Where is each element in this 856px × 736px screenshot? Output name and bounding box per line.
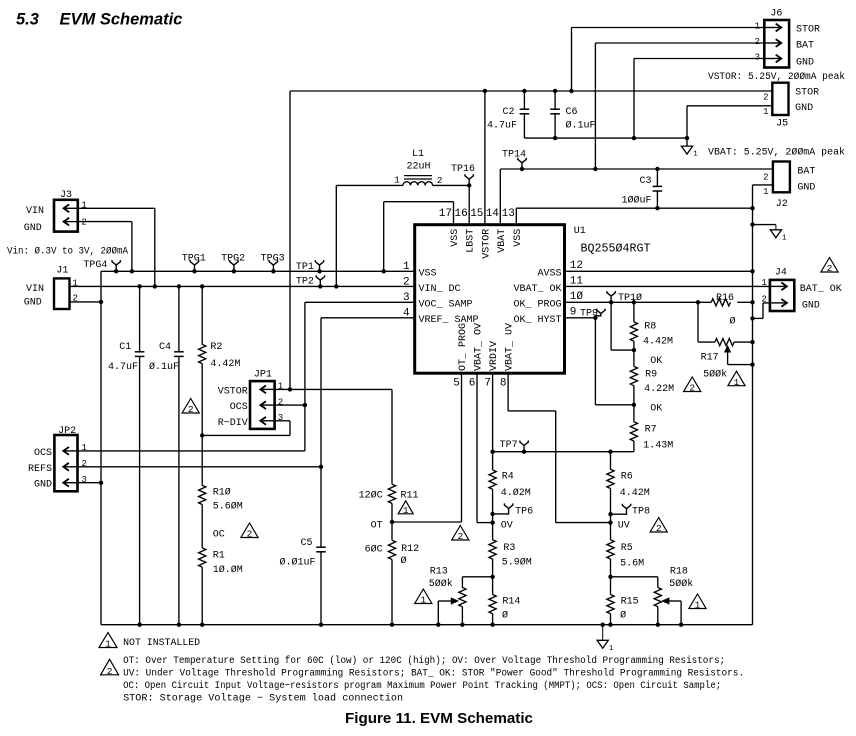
not-installed marker 1 near R17 value [728, 371, 745, 386]
resistor R11 [391, 389, 393, 484]
svg-text:13: 13 [502, 208, 515, 220]
svg-text:BAT_ OK: BAT_ OK [800, 284, 842, 295]
resistor R14 [492, 577, 494, 595]
svg-text:5ØØk: 5ØØk [429, 578, 453, 590]
R17 wiper arrow [725, 346, 731, 352]
svg-text:VOC_ SAMP: VOC_ SAMP [419, 299, 473, 310]
svg-text:GND: GND [24, 223, 42, 234]
svg-text:2: 2 [107, 666, 113, 677]
svg-text:R7: R7 [645, 425, 657, 436]
junction UV node [608, 520, 612, 524]
wire TP10 node down to OK node [610, 302, 612, 350]
wire J3 pin1 to VIN_DC rail [78, 207, 155, 209]
junction J5 gnd [685, 136, 689, 140]
svg-text:BAT: BAT [797, 167, 815, 178]
not-installed marker 1 near R18 [689, 594, 706, 609]
junction bottom rail [679, 623, 683, 627]
svg-text:1: 1 [763, 107, 768, 117]
svg-text:OCS: OCS [230, 402, 248, 413]
svg-text:GND: GND [796, 58, 814, 69]
svg-text:5.6M: 5.6M [620, 559, 644, 570]
junction R17 right [750, 340, 754, 344]
svg-text:OT: OT [371, 521, 383, 532]
svg-text:GND: GND [795, 103, 813, 114]
R18 wiper arrow [668, 600, 682, 602]
svg-text:TP1: TP1 [296, 262, 314, 273]
pin 2 arrow J6 [766, 42, 782, 44]
IC U1 BQ25504RGT body [415, 225, 565, 374]
svg-text:3: 3 [82, 475, 87, 485]
svg-text:R−DIV: R−DIV [218, 418, 248, 429]
svg-text:GND: GND [797, 183, 815, 194]
svg-text:OK: OK [650, 404, 662, 415]
wire J5 pin1 GND [687, 105, 772, 107]
wire AVSS pin12 to right gnd [565, 270, 753, 272]
svg-text:1: 1 [763, 187, 768, 197]
svg-text:R13: R13 [430, 567, 448, 578]
svg-text:5: 5 [453, 378, 460, 390]
test point TP14 [518, 158, 526, 169]
junction R6 top [608, 450, 612, 454]
svg-text:VSS: VSS [450, 229, 461, 247]
wire bottom ground rail [101, 624, 753, 626]
junction right gnd top [750, 206, 754, 210]
svg-text:STOR: STOR [796, 25, 820, 36]
wire right gnd vertical [752, 208, 754, 625]
svg-text:1: 1 [755, 22, 760, 32]
not-installed marker 2 near J4 [821, 258, 838, 273]
svg-text:C2: C2 [502, 107, 514, 118]
svg-text:C6: C6 [566, 107, 578, 118]
svg-text:VBAT_ OV: VBAT_ OV [474, 323, 485, 371]
pin 1 arrow JP1 [260, 388, 273, 390]
wire VIN_DC rail [70, 285, 415, 287]
svg-text:5ØØk: 5ØØk [669, 578, 693, 590]
pin 2 arrow J4 [771, 302, 787, 304]
junction R5 bottom [608, 575, 612, 579]
pin 2 arrow J3 [64, 221, 77, 223]
svg-text:TP1Ø: TP1Ø [618, 292, 642, 304]
junction VRDIV rail [490, 450, 494, 454]
svg-text:BQ255Ø4RGT: BQ255Ø4RGT [581, 243, 651, 256]
svg-text:2: 2 [763, 173, 768, 183]
junction OV node [490, 520, 494, 524]
test point TP6 [493, 503, 513, 514]
svg-text:8: 8 [500, 378, 507, 390]
svg-text:1Ø.ØM: 1Ø.ØM [213, 564, 243, 576]
svg-text:3: 3 [755, 53, 760, 63]
test point TPG4 [112, 260, 120, 271]
wire L1 pin1 down to VIN_DC [335, 185, 337, 286]
resistor R5 [607, 540, 614, 559]
wire OT to U1 pin5 [392, 521, 462, 523]
wire JP1 pin1 to R11 top [275, 388, 392, 390]
svg-text:1: 1 [82, 443, 87, 453]
junction C3 bottom [655, 206, 659, 210]
resistor R16 [711, 299, 730, 306]
svg-text:6ØC: 6ØC [365, 544, 383, 556]
wire JP2 pin2 REFS line [78, 466, 322, 468]
wire JP1 pin2 to VOC_SAMP drop [275, 404, 305, 406]
svg-text:Figure 11. EVM Schematic: Figure 11. EVM Schematic [345, 711, 533, 727]
svg-text:5.6ØM: 5.6ØM [213, 501, 243, 513]
svg-text:TPG4: TPG4 [83, 260, 107, 271]
junction R3 bottom [490, 575, 494, 579]
svg-text:NOT INSTALLED: NOT INSTALLED [123, 638, 200, 649]
junction J4 gnd [750, 316, 754, 320]
wire VBAT_OV pin6 down to OV [476, 373, 478, 522]
svg-text:R6: R6 [621, 472, 633, 483]
svg-text:OK_ PROG: OK_ PROG [513, 299, 561, 310]
svg-text:OK_ HYST: OK_ HYST [513, 315, 561, 326]
svg-text:OV: OV [501, 521, 513, 532]
svg-text:VBAT: VBAT [497, 229, 508, 253]
wire J6 pin1 to VSTOR rail [572, 27, 765, 29]
svg-text:2: 2 [656, 523, 662, 534]
svg-text:STOR: STOR [795, 88, 819, 99]
junction OK node1 [632, 348, 636, 352]
not-installed marker 2 legend [101, 659, 119, 675]
wire VBAT_UV pin8 jog to UV [507, 373, 509, 411]
pin 2 arrow JP1 [260, 404, 273, 406]
junction AVSS [750, 269, 754, 273]
svg-text:BAT: BAT [796, 41, 814, 52]
svg-text:1Ø: 1Ø [570, 291, 584, 303]
junction bottom rail [601, 623, 605, 627]
junction OT node [390, 520, 394, 524]
wire JP2 pin1 OCS line [78, 450, 305, 452]
resistor R15 [610, 577, 612, 595]
svg-text:1: 1 [693, 151, 698, 159]
wire U1 pin17 VSS jog [384, 201, 454, 203]
svg-text:VBAT_ UV: VBAT_ UV [505, 323, 516, 371]
svg-text:4.22M: 4.22M [644, 384, 674, 395]
svg-text:2: 2 [755, 37, 760, 47]
svg-text:J5: J5 [776, 119, 788, 130]
svg-text:5.3: 5.3 [16, 11, 39, 29]
svg-text:9: 9 [570, 307, 577, 319]
svg-text:JP2: JP2 [58, 426, 76, 437]
svg-text:4.Ø2M: 4.Ø2M [501, 487, 531, 499]
junction VSTOR/U1 pin15 [483, 89, 487, 93]
wire R-chain rail TP7 [493, 451, 634, 453]
svg-text:OT: Over Temperature Setting f: OT: Over Temperature Setting for 60C (lo… [123, 655, 725, 667]
svg-text:EVM Schematic: EVM Schematic [60, 11, 183, 29]
svg-text:C1: C1 [119, 342, 131, 353]
not-installed marker 1 near R11 [398, 501, 413, 514]
svg-text:1ØØuF: 1ØØuF [621, 195, 651, 207]
junction J1 pin2 [99, 300, 103, 304]
resistor R8 [633, 302, 635, 322]
svg-text:OC: Open Circuit Input Voltage: OC: Open Circuit Input Voltage−resistors… [123, 680, 721, 692]
ground symbol near J2 [775, 225, 777, 230]
resistor R7 [633, 405, 635, 422]
junction C6 bottom [553, 136, 557, 140]
resistor R6 [610, 452, 612, 470]
svg-text:4.42M: 4.42M [210, 359, 240, 370]
svg-text:VBAT: 5.25V, 2ØØmA peak: VBAT: 5.25V, 2ØØmA peak [708, 147, 845, 159]
capacitor C4 [178, 286, 180, 351]
not-installed marker 2 near JP1 [182, 399, 199, 414]
svg-text:GND: GND [34, 480, 52, 491]
svg-text:R4: R4 [502, 472, 514, 483]
svg-text:R5: R5 [621, 543, 633, 554]
potentiometer R17 [697, 302, 699, 342]
svg-text:REFS: REFS [28, 464, 52, 475]
wire J4 pin2 gnd jog [763, 302, 770, 304]
svg-text:4.7uF: 4.7uF [487, 121, 517, 132]
resistor R3 [489, 540, 496, 559]
junction VSTOR/C6 [553, 89, 557, 93]
junction J6 pin3 gnd [632, 136, 636, 140]
junction bottom rail [319, 623, 323, 627]
svg-text:R14: R14 [502, 596, 520, 607]
svg-text:LBST: LBST [466, 229, 477, 253]
svg-text:1: 1 [403, 505, 409, 516]
svg-text:TP16: TP16 [451, 164, 475, 175]
connector JP2 [54, 435, 77, 491]
test point TP16 [465, 174, 473, 185]
resistor R9 [633, 350, 635, 366]
connector J6 [764, 20, 789, 68]
svg-text:1: 1 [420, 595, 426, 606]
svg-text:Ø.1uF: Ø.1uF [149, 361, 179, 373]
capacitor C5 [320, 467, 322, 547]
svg-text:Ø.Ø1uF: Ø.Ø1uF [279, 557, 315, 569]
junction L1 on VIN_DC [334, 284, 338, 288]
svg-text:15: 15 [470, 208, 483, 220]
svg-text:TPG1: TPG1 [182, 254, 206, 265]
junction bottom rail [137, 623, 141, 627]
svg-text:VREF_ SAMP: VREF_ SAMP [419, 315, 479, 326]
svg-text:J3: J3 [60, 190, 72, 201]
svg-text:TP6: TP6 [515, 507, 533, 518]
svg-text:R16: R16 [716, 293, 734, 304]
junction bottom rail [460, 623, 464, 627]
svg-text:7: 7 [484, 378, 491, 390]
junction gnd stub [750, 222, 754, 226]
svg-text:1: 1 [278, 382, 283, 392]
svg-text:4.7uF: 4.7uF [108, 362, 138, 373]
svg-text:R18: R18 [670, 567, 688, 578]
svg-text:OK: OK [650, 356, 662, 367]
capacitor C1 [139, 286, 141, 351]
svg-text:4.42M: 4.42M [643, 337, 673, 348]
not-installed marker 2 near OT [452, 526, 469, 541]
R13 wiper arrow [438, 600, 452, 602]
wire J6 pin3 to C2/C6 ground rail [634, 58, 764, 60]
svg-text:UV: Under Voltage Threshold Pr: UV: Under Voltage Threshold Programming … [123, 667, 744, 679]
test point TP10 [607, 291, 615, 302]
junction OK_PROG right gnd [750, 300, 754, 304]
connector J1 [54, 278, 70, 309]
wire left gnd vertical [100, 271, 102, 624]
connector J2 [773, 162, 790, 193]
junction REFS / VREF_SAMP / C5 [319, 465, 323, 469]
wire VSS pin13 rail to right gnd [516, 207, 752, 209]
svg-text:4.42M: 4.42M [620, 488, 650, 499]
junction VBAT/C3 [655, 167, 659, 171]
svg-text:VIN_ DC: VIN_ DC [419, 284, 461, 295]
svg-text:1: 1 [394, 175, 400, 186]
svg-text:5.9ØM: 5.9ØM [502, 557, 532, 569]
svg-text:R8: R8 [644, 322, 656, 333]
svg-text:R12: R12 [401, 544, 419, 555]
svg-text:2: 2 [689, 383, 695, 394]
wire J6 pin2 to VBAT rail [595, 42, 764, 44]
wire R18 top link [611, 576, 658, 578]
svg-text:VSTOR: 5.25V, 2ØØmA peak: VSTOR: 5.25V, 2ØØmA peak [708, 71, 845, 83]
pin 3 arrow JP2 [63, 482, 76, 484]
svg-text:C3: C3 [639, 176, 651, 187]
svg-text:J4: J4 [775, 268, 787, 279]
svg-text:GND: GND [24, 298, 42, 309]
svg-text:J1: J1 [56, 266, 68, 277]
wire JP2 pin3 to left gnd [78, 482, 102, 484]
junction J3 pin2 [130, 269, 134, 273]
junction VBAT/J6 pin2 [593, 167, 597, 171]
not-installed marker 2 near R9 [684, 377, 701, 392]
svg-text:2: 2 [81, 218, 86, 228]
wire OK_HYST pin9 [565, 317, 596, 319]
svg-text:R17: R17 [701, 353, 719, 364]
svg-text:VIN: VIN [26, 284, 44, 295]
ground symbol near J5 [686, 138, 688, 146]
junction J3 pin1 [153, 284, 157, 288]
svg-text:2: 2 [188, 404, 194, 415]
junction bottom rail [490, 623, 494, 627]
svg-text:VSTOR: VSTOR [218, 387, 248, 398]
svg-text:2: 2 [763, 93, 768, 103]
svg-text:VIN: VIN [26, 206, 44, 217]
svg-text:STOR: Storage Voltage − System: STOR: Storage Voltage − System load conn… [123, 692, 403, 704]
wire VBAT rail (pin14 to J2) [500, 168, 773, 170]
svg-text:VSS: VSS [513, 229, 524, 247]
junction bottom rail [390, 623, 394, 627]
svg-text:VSS: VSS [419, 268, 437, 279]
svg-text:1.43M: 1.43M [643, 441, 673, 452]
svg-text:J6: J6 [770, 9, 782, 20]
connector JP1 [250, 381, 275, 429]
wire U1 pin3 VOC_SAMP down to OCS line [305, 301, 415, 303]
wire U1 pin15 up to VSTOR [484, 91, 486, 225]
svg-text:22uH: 22uH [407, 162, 431, 173]
svg-text:JP1: JP1 [254, 369, 272, 380]
svg-text:R3: R3 [503, 543, 515, 554]
capacitor C3 [656, 169, 658, 186]
resistor R1 [199, 548, 206, 567]
resistor R4 [492, 452, 494, 470]
junction R-DIV on R2 chain [200, 433, 204, 437]
svg-text:R1Ø: R1Ø [213, 487, 231, 499]
svg-text:VBAT_ OK: VBAT_ OK [513, 284, 561, 295]
junction JP2 pin3 [99, 481, 103, 485]
junction R17 wiper gnd [750, 362, 754, 366]
svg-text:Ø: Ø [620, 610, 626, 622]
svg-text:J2: J2 [776, 199, 788, 210]
svg-text:TP2: TP2 [296, 277, 314, 288]
svg-text:GND: GND [802, 301, 820, 312]
svg-text:UV: UV [618, 521, 630, 532]
wire R13 top link [462, 576, 492, 578]
svg-text:AVSS: AVSS [537, 268, 561, 279]
test point TP8 [611, 504, 631, 515]
test point TP9 [595, 309, 605, 318]
test point TP1 [315, 260, 323, 271]
wire JP1 pin3 jog to R-DIV node [275, 420, 290, 422]
svg-text:5ØØk: 5ØØk [703, 369, 727, 381]
svg-text:1: 1 [695, 600, 701, 611]
wire OK_PROG pin10 line [565, 301, 712, 303]
svg-text:U1: U1 [574, 226, 586, 237]
junction R17 left on OK_PROG [696, 300, 700, 304]
svg-text:R2: R2 [210, 342, 222, 353]
wire VRDIV pin7 down [492, 373, 494, 452]
pin 1 arrow J3 [64, 207, 77, 209]
wire U1 pin4 VREF_SAMP down to REFS [321, 317, 415, 319]
wire VBAT_OK pin11 to J4 pin1 [565, 285, 770, 287]
junction JP1 pin1 / VSTOR drop [288, 387, 292, 391]
resistor R2 [201, 286, 203, 344]
pin 2 arrow JP2 [63, 466, 76, 468]
junction VSTOR/C2 [522, 89, 526, 93]
wire VSTOR rail [290, 90, 772, 92]
potentiometer R13 [461, 577, 463, 588]
connector J3 [54, 200, 78, 232]
wire C2/C6 ground rail [524, 137, 687, 139]
junction bottom rail [608, 623, 612, 627]
junction pin17 wire on VSS rail [382, 269, 386, 273]
junction R8 top [632, 300, 636, 304]
svg-text:TPG3: TPG3 [261, 254, 285, 265]
svg-text:12ØC: 12ØC [359, 490, 383, 502]
svg-text:Ø: Ø [401, 555, 407, 567]
test point TPG2 [230, 260, 238, 271]
pin 3 arrow J6 [766, 58, 782, 60]
ground symbol bottom [602, 625, 604, 641]
svg-text:1: 1 [105, 639, 111, 650]
pin 3 arrow JP1 [260, 420, 273, 422]
svg-text:TPG2: TPG2 [221, 254, 245, 265]
wire J1 pin2 to left gnd vertical [70, 301, 102, 303]
svg-text:TP7: TP7 [500, 440, 518, 451]
svg-text:6: 6 [469, 378, 476, 390]
wire TP16 to U1 pin16 [468, 185, 470, 224]
svg-text:2: 2 [82, 459, 87, 469]
pin 1 arrow J6 [766, 27, 782, 29]
junction bottom rail [177, 623, 181, 627]
junction bottom rail [656, 623, 660, 627]
svg-text:TP14: TP14 [502, 150, 526, 161]
resistor R10 [201, 435, 203, 485]
svg-text:Vin: Ø.3V to 3V, 2ØØmA: Vin: Ø.3V to 3V, 2ØØmA [7, 246, 128, 258]
svg-text:2: 2 [278, 397, 283, 407]
svg-text:Ø.1uF: Ø.1uF [566, 120, 596, 132]
svg-text:OC: OC [213, 530, 225, 541]
not-installed marker 1 near R13 [415, 589, 432, 604]
wire gnd stub right [753, 224, 776, 226]
not-installed marker 2 near OC [241, 523, 258, 538]
svg-text:16: 16 [454, 208, 467, 220]
svg-text:OCS: OCS [34, 448, 52, 459]
capacitor C2 [523, 91, 525, 109]
svg-text:Ø: Ø [502, 610, 508, 622]
connector J5 [772, 83, 788, 115]
not-installed marker 1 legend [99, 633, 117, 648]
pin 1 arrow J4 [771, 285, 787, 287]
svg-text:3: 3 [278, 413, 283, 423]
svg-text:L1: L1 [412, 149, 424, 160]
